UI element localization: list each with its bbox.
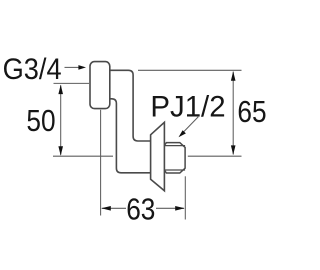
65 dim bottom extension line — [188, 155, 242, 157]
63 dimension line right segment — [156, 207, 184, 209]
50 bottom arrowhead — [58, 146, 63, 156]
PJ1/2 leader line — [183, 117, 198, 133]
50 dimension line — [60, 85, 62, 155]
50/axis bottom extension line — [53, 155, 113, 157]
svg-text:G3/4: G3/4 — [3, 53, 62, 86]
63 dim left extension line — [100, 110, 102, 216]
svg-text:PJ1/2: PJ1/2 — [150, 90, 225, 123]
63 left arrowhead — [101, 206, 111, 211]
50 top arrowhead — [58, 85, 63, 95]
PJ1/2 leader arrowhead — [179, 130, 186, 137]
50 dim top extension line — [54, 82, 90, 84]
svg-text:50: 50 — [26, 103, 55, 138]
63 right arrowhead — [175, 206, 185, 211]
G3/4 leader arrow line — [65, 66, 81, 68]
pipe elbow inner wall — [108, 99, 151, 173]
svg-text:65: 65 — [237, 94, 266, 129]
63 dimension line left segment — [102, 207, 126, 209]
svg-text:63: 63 — [126, 192, 155, 227]
65 dim top extension line — [138, 69, 242, 71]
G3/4 leader arrowhead — [78, 65, 86, 70]
conical flange — [151, 122, 165, 191]
63 dim right extension line — [184, 176, 186, 219]
hex nut facet line bottom — [164, 169, 185, 171]
hex nut body (PJ1/2 thread end) — [164, 143, 185, 173]
hex nut facet line top — [164, 145, 185, 147]
pipe elbow outer wall — [108, 70, 151, 141]
65 bottom arrowhead — [231, 145, 236, 155]
G3/4 nut cylinder — [90, 62, 110, 109]
65 top arrowhead — [231, 71, 236, 81]
65 dimension line — [232, 72, 234, 155]
